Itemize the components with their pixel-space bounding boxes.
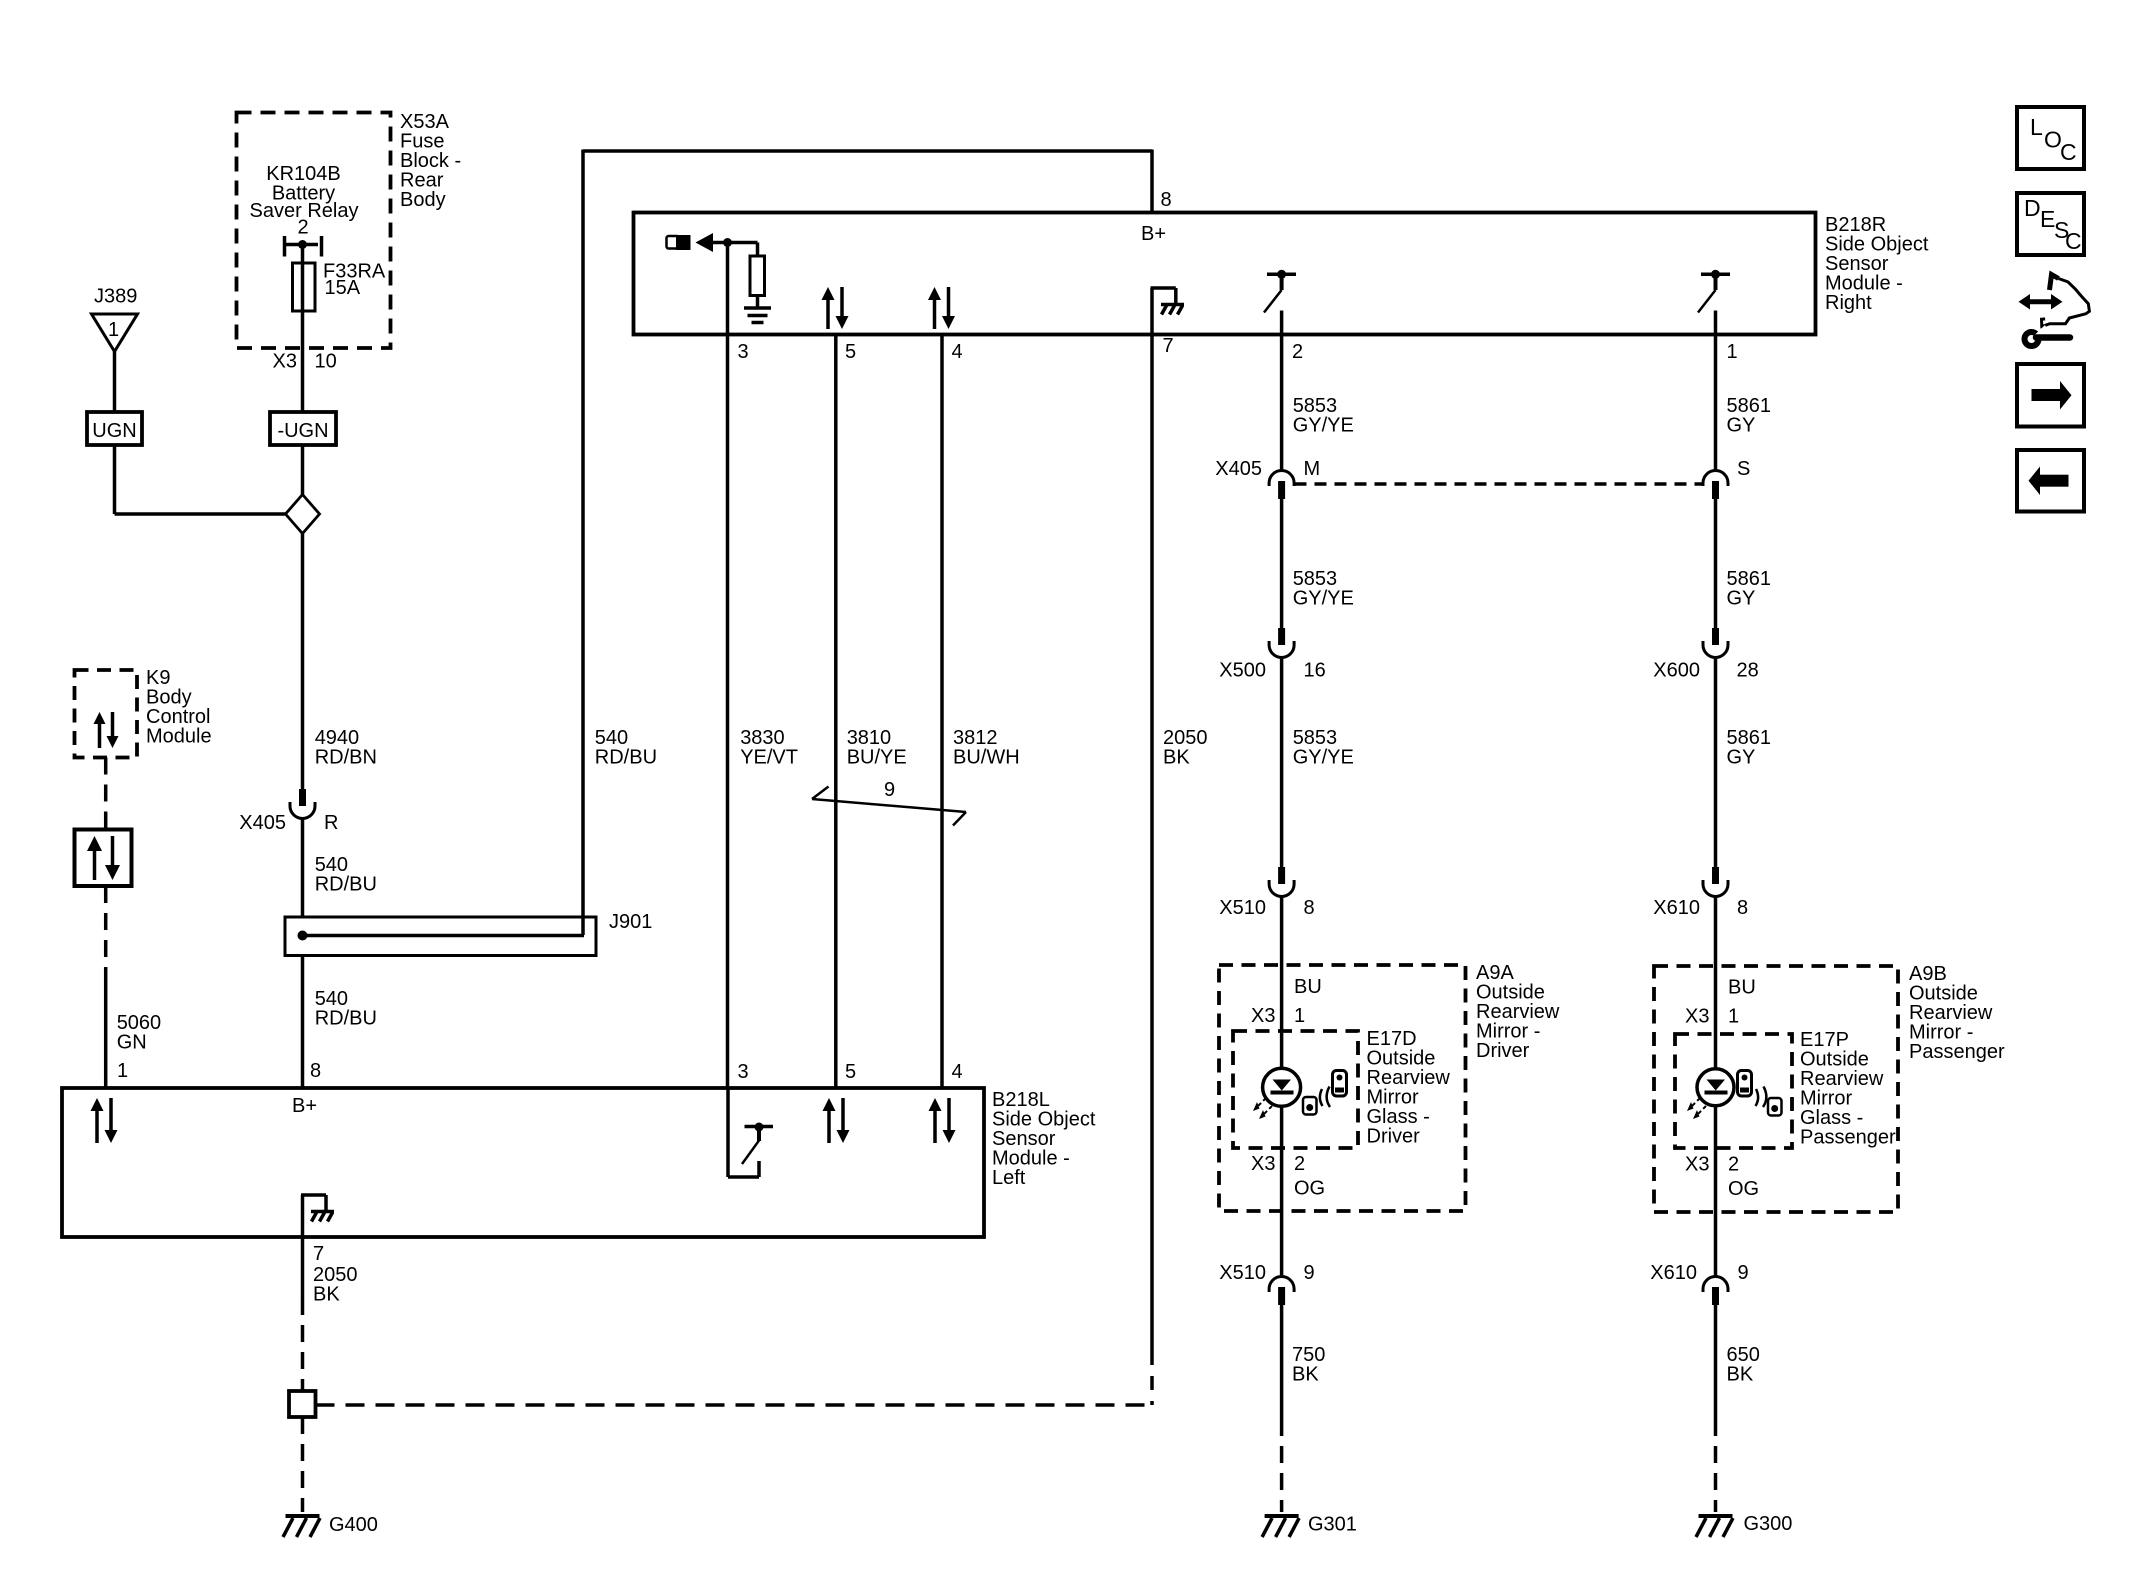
svg-text:GY/YE: GY/YE (1293, 415, 1354, 437)
dashed link 2050 BK to ground splice (316, 1403, 1153, 1407)
svg-text:X405: X405 (1215, 458, 1262, 480)
LED emission arrows E17P (1687, 1098, 1706, 1119)
label wire 4940 RD/BN (315, 727, 377, 769)
label wire 2050 BK (1163, 727, 1208, 769)
svg-text:BK: BK (313, 1284, 340, 1306)
wire 5861 GY B218R pin 1 to S (1714, 335, 1718, 471)
label wire 3812 BU/WH (953, 727, 1020, 769)
object sensor icon inside B218R (667, 233, 758, 256)
svg-text:BU: BU (1728, 977, 1756, 999)
label KR104B Battery Saver Relay (250, 163, 359, 222)
signal arrows pin 5 inside B218L (823, 1098, 850, 1143)
inline connector X510 pin 8 (1219, 867, 1314, 919)
svg-text:RD/BU: RD/BU (595, 747, 657, 769)
svg-text:G301: G301 (1308, 1514, 1357, 1536)
module E17D Outside Rearview Mirror Glass - Driver dashed box (1233, 1031, 1358, 1148)
ground G301 (1262, 1514, 1357, 1538)
svg-text:OG: OG (1728, 1178, 1759, 1200)
label wire 540 RD/BU upper (315, 854, 377, 896)
svg-text:9: 9 (1304, 1262, 1315, 1284)
gateway arrow box (75, 830, 132, 887)
dashed wire to ground splice (301, 1298, 305, 1391)
module A9B Outside Rearview Mirror - Passenger dashed box (1654, 966, 1898, 1212)
svg-text:4: 4 (952, 1061, 963, 1083)
switch pin 2 inside B218R (1264, 270, 1296, 335)
svg-text:B+: B+ (1141, 223, 1166, 245)
wire 650 BK (1714, 1305, 1718, 1419)
svg-text:RD/BU: RD/BU (315, 874, 377, 896)
svg-text:X610: X610 (1650, 1262, 1697, 1284)
wire through LED to X3 pin 2 (1280, 1106, 1284, 1148)
svg-text:3: 3 (738, 341, 749, 363)
wire J389 to UGN box (113, 352, 117, 413)
pin labels above B218L (738, 1061, 963, 1083)
net label B+ inside B218R (1141, 223, 1166, 245)
svg-text:28: 28 (1737, 660, 1759, 682)
svg-text:2: 2 (1292, 341, 1303, 363)
svg-text:J389: J389 (94, 286, 137, 308)
svg-text:Left: Left (992, 1167, 1026, 1189)
wire B+ feed from J901 up and over to B218R pin 8 (583, 150, 1152, 936)
svg-text:Passenger: Passenger (1909, 1041, 2005, 1063)
connector X3 pin 1 A9B (1685, 1006, 1739, 1028)
svg-text:BU: BU (1294, 976, 1322, 998)
dashed link X405 M to S (1295, 482, 1703, 486)
dashed wire 750 BK to G301 (1280, 1419, 1284, 1512)
wire 5853 GY/YE B218R pin 2 to X405 M (1280, 335, 1284, 471)
label B218L Side Object Sensor Module - Left (992, 1089, 1096, 1189)
wire OG to X610 pin 9 (1714, 1148, 1718, 1277)
fuse F33RA 15A (293, 261, 386, 312)
serial data arrows inside K9 (94, 712, 119, 748)
sidebar back arrow button (2017, 450, 2084, 512)
svg-text:Module: Module (146, 726, 212, 748)
svg-text:5: 5 (845, 1061, 856, 1083)
inline connector X500 pin 16 (1219, 628, 1325, 682)
wire 5853 GY/YE to X510 (1280, 657, 1284, 867)
label wire 540 RD/BU lower (315, 988, 377, 1030)
svg-text:-UGN: -UGN (277, 420, 328, 442)
svg-text:1: 1 (1728, 1006, 1739, 1028)
label wire 5853 GY/YE middle (1293, 568, 1354, 610)
signal ground inside B218R (744, 308, 771, 323)
svg-text:BK: BK (1292, 1364, 1319, 1386)
pin 8 label B218L (310, 1060, 321, 1082)
svg-text:GY: GY (1727, 747, 1756, 769)
connector X3 pin 2 A9A (1251, 1153, 1305, 1175)
dashed wire 650 BK to G300 (1714, 1419, 1718, 1512)
net label B+ inside B218L (292, 1095, 317, 1117)
svg-text:7: 7 (1163, 335, 1174, 357)
twisted pair callout 9 across 3810 and 3812 (812, 779, 966, 826)
relay KR104B contact (285, 236, 322, 257)
signal arrows pin 4 inside B218R (928, 287, 955, 329)
label wire 650 BK (1727, 1344, 1760, 1386)
svg-text:15A: 15A (325, 277, 361, 299)
approaching car icon E17P (1738, 1071, 1782, 1116)
svg-text:7: 7 (313, 1243, 324, 1265)
wire 3810 BU/YE pin5 to pin5 (834, 335, 838, 1089)
svg-text:RD/BU: RD/BU (315, 1008, 377, 1030)
svg-text:9: 9 (884, 779, 895, 801)
svg-text:2: 2 (297, 217, 308, 239)
module B218L Side Object Sensor Module - Left box (62, 1088, 984, 1237)
wire 540 RD/BU X405 to J901 (301, 818, 305, 917)
switch pin 3 inside B218L (728, 1088, 773, 1177)
net label UGN box (87, 412, 142, 445)
chassis ground hook pin 7 inside B218L (301, 1195, 334, 1237)
ground G300 (1696, 1513, 1792, 1537)
dashed wire splice to G400 (301, 1417, 305, 1512)
wire BU into mirror A9B (1714, 896, 1718, 1068)
wire UGN down and right to splice diamond (115, 445, 286, 514)
svg-text:GY/YE: GY/YE (1293, 747, 1354, 769)
pin 1 label B218L (117, 1060, 128, 1082)
svg-text:X3: X3 (1685, 1006, 1709, 1028)
svg-text:X510: X510 (1219, 897, 1266, 919)
svg-text:X3: X3 (273, 351, 297, 373)
dashed wire K9 to gateway box (104, 758, 108, 830)
svg-text:R: R (324, 812, 338, 834)
svg-text:8: 8 (310, 1060, 321, 1082)
pin 2 label of relay KR104B (297, 217, 308, 239)
svg-text:GY: GY (1727, 415, 1756, 437)
inline connector X600 pin 28 (1653, 628, 1758, 682)
label wire BU A9B (1728, 977, 1756, 999)
label B218R Side Object Sensor Module - Right (1825, 214, 1929, 314)
label E17D Outside Rearview Mirror Glass - Driver (1367, 1028, 1451, 1148)
svg-text:L: L (2030, 114, 2043, 140)
wire OG to X510 pin 9 (1280, 1148, 1284, 1277)
label wire 5861 GY middle (1727, 568, 1772, 610)
junction dot pin 3 net (723, 238, 732, 247)
label wire OG A9A (1294, 1178, 1325, 1200)
svg-text:X500: X500 (1219, 660, 1266, 682)
module A9A Outside Rearview Mirror - Driver dashed box (1219, 965, 1466, 1211)
svg-text:5: 5 (845, 341, 856, 363)
sidebar connector-view icon (2019, 275, 2090, 347)
module E17P Outside Rearview Mirror Glass - Passenger dashed box (1675, 1034, 1792, 1148)
label wire BU A9A (1294, 976, 1322, 998)
label wire 750 BK (1292, 1344, 1325, 1386)
wire 5060 GN to B218L pin 1 (104, 975, 108, 1088)
label K9 Body Control Module (146, 667, 212, 748)
wire 5861 GY to X610 (1714, 657, 1718, 867)
wire 540 RD/BU J901 to B218L pin 8 (301, 956, 305, 1089)
label wire 540 RD/BU right branch (595, 727, 657, 769)
fuse block X53A dashed outline (237, 113, 391, 349)
label wire 5861 GY lower (1727, 727, 1772, 769)
resistor inside B218R (750, 256, 765, 296)
inline connector X510 pin 9 (1219, 1262, 1314, 1305)
net label -UGN box (270, 412, 336, 445)
LED indicator E17P (1697, 1069, 1734, 1106)
svg-text:C: C (2065, 228, 2082, 254)
svg-text:Body: Body (400, 189, 446, 211)
splice diamond node (286, 495, 320, 534)
approaching car icon E17D (1303, 1071, 1347, 1115)
switch pin 1 inside B218R (1698, 270, 1730, 335)
svg-text:4: 4 (952, 341, 963, 363)
wire through LED to X3 pin 2 A9B (1714, 1106, 1718, 1148)
inline connector X610 pin 9 (1650, 1262, 1748, 1305)
signal arrows pin 1 inside B218L (91, 1098, 118, 1143)
inline connector X405 R (239, 789, 338, 834)
wire 3812 BU/WH pin4 to pin4 (940, 335, 944, 1089)
svg-text:J901: J901 (609, 911, 652, 933)
svg-text:1: 1 (1294, 1005, 1305, 1027)
svg-text:8: 8 (1737, 897, 1748, 919)
svg-text:GN: GN (117, 1032, 147, 1054)
label wire 5853 GY/YE upper (1293, 395, 1354, 437)
svg-text:1: 1 (1727, 341, 1738, 363)
svg-text:Passenger: Passenger (1800, 1127, 1896, 1149)
label E17P Outside Rearview Mirror Glass - Passenger (1800, 1029, 1896, 1149)
svg-text:1: 1 (117, 1060, 128, 1082)
label wire 5861 GY upper (1727, 395, 1772, 437)
connector X3 pin 1 A9A (1251, 1005, 1305, 1027)
svg-text:2: 2 (1294, 1153, 1305, 1175)
pin labels under B218R (738, 335, 1738, 363)
connector X3 pin 2 A9B (1685, 1154, 1739, 1176)
svg-text:X610: X610 (1653, 897, 1700, 919)
signal arrows pin 4 inside B218L (929, 1098, 956, 1143)
svg-text:G300: G300 (1744, 1513, 1793, 1535)
sidebar forward arrow button (2017, 364, 2084, 427)
wire 3830 YE/VT pin3 to pin3 (726, 243, 730, 1089)
pin 7 and wire 2050 BK label B218L (313, 1243, 358, 1306)
svg-text:BK: BK (1727, 1364, 1754, 1386)
svg-text:2: 2 (1728, 1154, 1739, 1176)
svg-text:Driver: Driver (1476, 1040, 1530, 1062)
svg-text:C: C (2060, 139, 2077, 165)
svg-text:BK: BK (1163, 747, 1190, 769)
label X53A Fuse Block - Rear Body (400, 111, 461, 211)
module K9 Body Control Module dashed box (75, 670, 138, 758)
connective J389 junction triangle (92, 286, 138, 352)
svg-text:RD/BN: RD/BN (315, 747, 377, 769)
wire resistor to signal ground (756, 296, 760, 308)
svg-text:16: 16 (1304, 660, 1326, 682)
ground G400 (283, 1514, 378, 1537)
svg-text:GY: GY (1727, 588, 1756, 610)
inline connector X405 M (1215, 458, 1320, 499)
svg-text:8: 8 (1161, 189, 1172, 211)
svg-text:BU/WH: BU/WH (953, 747, 1020, 769)
svg-text:3: 3 (738, 1061, 749, 1083)
wire 2050 BK from B218R pin 7 (1150, 335, 1154, 1352)
label wire 3830 YE/VT (740, 727, 798, 769)
dashed wire 2050 BK down to splice (1150, 1351, 1154, 1405)
svg-text:OG: OG (1294, 1178, 1325, 1200)
svg-text:B+: B+ (292, 1095, 317, 1117)
svg-text:Driver: Driver (1367, 1126, 1421, 1148)
svg-text:S: S (1737, 458, 1750, 480)
wire 5861 GY to X600 (1714, 499, 1718, 628)
svg-text:D: D (2024, 195, 2041, 221)
module B218R Side Object Sensor Module - Right box (634, 213, 1816, 335)
svg-text:YE/VT: YE/VT (740, 747, 798, 769)
svg-text:8: 8 (1304, 897, 1315, 919)
LED indicator E17D (1263, 1068, 1301, 1106)
label wire 5060 GN (117, 1012, 162, 1054)
svg-text:GY/YE: GY/YE (1293, 588, 1354, 610)
wire 4940 RD/BN diamond to X405 (301, 534, 305, 790)
svg-text:UGN: UGN (92, 420, 136, 442)
svg-text:9: 9 (1738, 1262, 1749, 1284)
LED emission arrows E17D (1253, 1098, 1272, 1119)
svg-text:X3: X3 (1685, 1154, 1709, 1176)
dashed wire 5060 below gateway box (104, 886, 108, 975)
wire 5853 GY/YE to X500 (1280, 499, 1284, 628)
chassis ground hook pin 7 inside B218R (1151, 288, 1185, 335)
wire -UGN to diamond (301, 445, 305, 495)
svg-text:X3: X3 (1251, 1005, 1275, 1027)
label wire 3810 BU/YE (847, 727, 907, 769)
label wire 5853 GY/YE lower (1293, 727, 1354, 769)
label A9B Outside Rearview Mirror - Passenger (1909, 963, 2005, 1063)
inline connector X610 pin 8 (1653, 867, 1748, 919)
pin 8 label B218R (1161, 189, 1172, 211)
sidebar LOC button (2017, 107, 2084, 169)
sidebar DESC button (2017, 193, 2084, 255)
connector X3 pin 10 labels (273, 351, 337, 373)
svg-text:X600: X600 (1653, 660, 1700, 682)
svg-text:X405: X405 (239, 812, 286, 834)
label A9A Outside Rearview Mirror - Driver (1476, 962, 1560, 1062)
inline connector S (1703, 458, 1750, 499)
svg-text:X3: X3 (1251, 1153, 1275, 1175)
svg-text:10: 10 (315, 351, 337, 373)
wire relay to fuse to X3 pin 10 (301, 245, 305, 413)
svg-text:M: M (1304, 458, 1321, 480)
svg-text:Right: Right (1825, 292, 1872, 314)
wire 2050 BK below B218L (301, 1237, 305, 1298)
svg-text:X510: X510 (1219, 1262, 1266, 1284)
svg-text:1: 1 (108, 319, 119, 341)
ground splice node square (289, 1391, 316, 1417)
svg-text:G400: G400 (329, 1514, 378, 1536)
splice pack J901 (285, 911, 652, 956)
label wire OG A9B (1728, 1178, 1759, 1200)
signal arrows pin 5 inside B218R (822, 287, 849, 329)
wire 750 BK (1280, 1305, 1284, 1419)
wire BU into mirror A9A (1280, 896, 1284, 1068)
svg-text:BU/YE: BU/YE (847, 747, 907, 769)
